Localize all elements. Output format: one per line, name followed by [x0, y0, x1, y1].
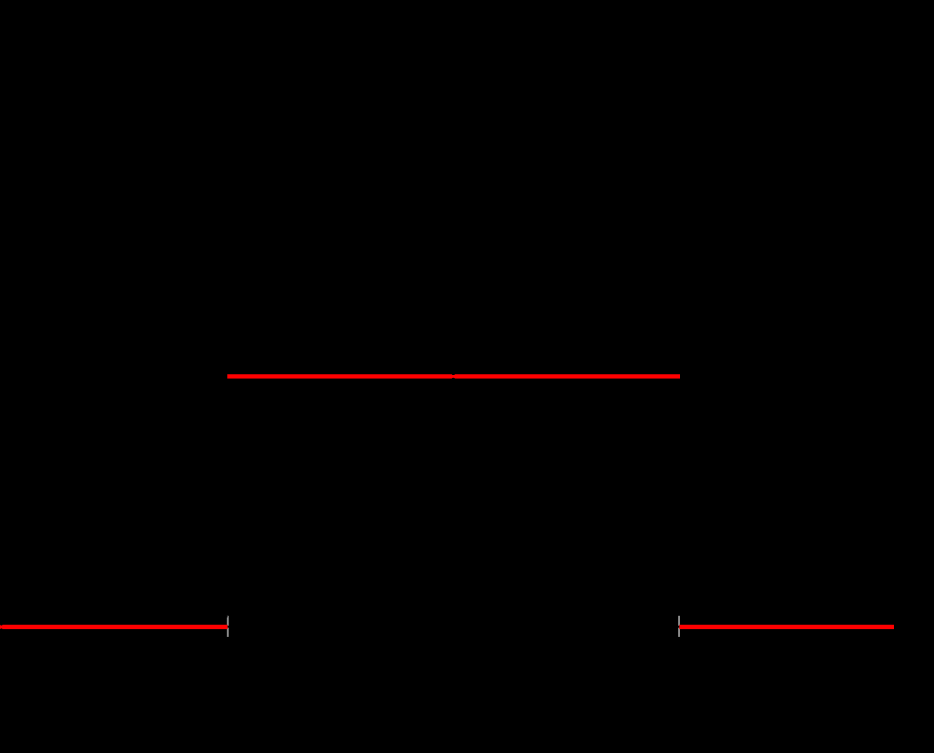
- top red segment (value 1): [227, 374, 680, 378]
- nick on left tick top corner: [226, 616, 228, 618]
- left notch top: [0, 624, 2, 626]
- tick at x=-1: [227, 616, 229, 637]
- bottom-left red segment (value 0): [0, 625, 228, 629]
- x-axis (black, punches through ticks): [0, 626, 934, 628]
- junction notch bottom: [452, 378, 455, 380]
- tick at x=+1: [678, 616, 680, 637]
- bottom-right red segment (value 0): [679, 625, 894, 629]
- junction notch top: [452, 373, 455, 375]
- left notch bottom: [0, 628, 2, 630]
